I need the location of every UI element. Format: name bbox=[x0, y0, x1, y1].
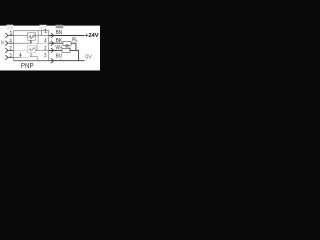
resistor RL2 bbox=[62, 48, 70, 52]
BN colour swatch bbox=[56, 25, 64, 29]
svg-text:+24V: +24V bbox=[85, 33, 99, 39]
chevron BN bbox=[51, 33, 54, 38]
white schematic field bbox=[0, 24, 100, 70]
svg-text:2: 2 bbox=[44, 46, 46, 52]
svg-text:0V: 0V bbox=[85, 55, 92, 61]
wire pin1 inside box bbox=[14, 35, 28, 37]
left pin 2 chevron bbox=[5, 48, 8, 53]
arrowhead Q2 bbox=[33, 48, 34, 49]
0V rail bbox=[49, 60, 85, 62]
svg-text:WH: WH bbox=[55, 45, 62, 51]
wire pin4 stub bbox=[8, 42, 14, 44]
transistor glyph Q1 bbox=[29, 35, 35, 39]
wire pin2 inside box bbox=[14, 49, 28, 51]
V4 foot arrow bbox=[36, 49, 38, 50]
vertical V1 box top to wire1 bbox=[41, 31, 43, 36]
wire WH right part bbox=[70, 49, 79, 51]
chevron BU bbox=[51, 58, 54, 63]
BU label stub bbox=[60, 59, 62, 61]
small cross mark bbox=[19, 53, 21, 58]
wire WH left part bbox=[49, 49, 62, 51]
box bottom edge rail overdraw bbox=[14, 60, 49, 62]
wire WH drop to rail bbox=[78, 50, 80, 60]
svg-text:BN: BN bbox=[56, 30, 62, 36]
gray remnant rect middle bbox=[40, 25, 47, 31]
left pin 4 chevron bbox=[5, 41, 8, 46]
svg-text:4: 4 bbox=[10, 39, 12, 45]
svg-text:BK: BK bbox=[56, 38, 62, 44]
arrowhead Q1 bbox=[33, 35, 34, 36]
output stage square S2 bbox=[28, 45, 36, 53]
wire pin3 stub bbox=[8, 56, 14, 58]
wire pin1 from S1 to box edge bbox=[35, 35, 48, 37]
svg-text:2: 2 bbox=[10, 46, 12, 52]
svg-text:3: 3 bbox=[44, 53, 46, 59]
junction S1 bottom to wire4 bbox=[30, 40, 32, 43]
svg-text:1: 1 bbox=[44, 29, 47, 35]
wire S2 lead horizontal bbox=[31, 55, 37, 57]
wire BK left part bbox=[49, 42, 63, 44]
wire BN bbox=[49, 35, 85, 37]
svg-text:4: 4 bbox=[44, 39, 46, 45]
sensor box U1 bbox=[14, 31, 49, 61]
transistor glyph Q2 bbox=[29, 47, 35, 51]
wire BK right part bbox=[71, 42, 76, 44]
svg-text:Is: Is bbox=[1, 40, 5, 46]
gray remnant rect left bbox=[7, 25, 14, 30]
svg-text:3: 3 bbox=[10, 53, 12, 59]
S2 lead arrowhead bbox=[30, 55, 32, 56]
resistor RL1 bbox=[63, 41, 71, 45]
vertical V2 box top to wire4 bbox=[37, 31, 39, 44]
left pin 3 chevron bbox=[5, 55, 8, 60]
wire BK drop to WH bbox=[75, 43, 77, 50]
wire drop to box bottom rail bbox=[36, 56, 38, 60]
output stage square S1 bbox=[28, 33, 36, 41]
vertical V4 wire4 to wire2 bbox=[36, 43, 38, 50]
wire pin4 inside box bbox=[14, 42, 31, 44]
S2 bottom lead bbox=[30, 53, 32, 57]
chevron BK bbox=[51, 41, 54, 46]
bottom black band bbox=[0, 70, 100, 71]
wire pin2 from S2 to box edge bbox=[35, 49, 48, 51]
wire pin3 inside box bbox=[14, 56, 21, 58]
svg-text:PNP: PNP bbox=[21, 61, 34, 70]
svg-text:1: 1 bbox=[9, 31, 12, 37]
left pin 1 chevron bbox=[5, 33, 8, 38]
wire pin1 stub bbox=[8, 35, 14, 37]
wire pin2 stub bbox=[8, 49, 14, 51]
chevron WH bbox=[51, 48, 54, 53]
